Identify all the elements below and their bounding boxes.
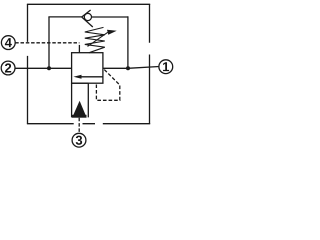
lower poppet box <box>72 83 89 117</box>
pilot dashed loop <box>96 70 119 101</box>
port 3 circle <box>72 133 86 147</box>
enclosure bottom edge <box>27 123 150 125</box>
junction node left <box>47 66 51 70</box>
valve body square <box>72 53 103 83</box>
port4 pilot dashed line <box>15 42 79 44</box>
port4 pilot stub to valve top <box>78 45 80 53</box>
port 2 circle <box>1 61 15 75</box>
wire vertical right inner <box>127 16 129 68</box>
arrow line in square <box>81 76 103 78</box>
adjustment arrow shaft <box>88 32 108 46</box>
enclosure top edge <box>27 3 150 5</box>
spring <box>85 27 105 52</box>
port3 dashed line <box>78 118 80 133</box>
enclosure left edge <box>27 4 29 123</box>
port label 1 <box>163 62 169 71</box>
junction node right <box>126 66 130 70</box>
wire port2 to valve <box>15 67 72 69</box>
wire top inner left <box>48 16 81 18</box>
port label 4 <box>5 38 12 47</box>
port label 3 <box>76 136 82 145</box>
poppet filled triangle <box>72 101 86 118</box>
wire top inner right <box>92 16 128 18</box>
port 1 circle <box>159 60 173 74</box>
valve arrow head <box>73 75 81 79</box>
check valve ball <box>84 13 91 20</box>
poppet triangle base bar <box>72 115 87 118</box>
enclosure right edge <box>149 4 151 123</box>
wire valve to port1 <box>103 67 159 69</box>
port label 2 <box>5 63 11 72</box>
wire vertical left inner <box>48 17 50 68</box>
check valve seat <box>82 10 93 27</box>
adjustment arrow head <box>107 30 117 35</box>
port 4 circle <box>1 36 15 50</box>
